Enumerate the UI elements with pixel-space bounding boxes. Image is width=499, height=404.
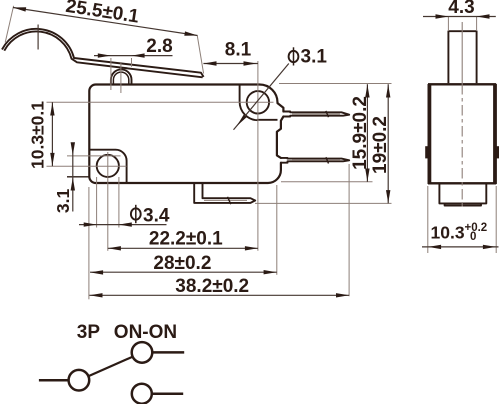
svg-text:4.3: 4.3 bbox=[448, 0, 474, 18]
plunger dome bbox=[111, 69, 132, 84]
dimension 10.3 left bbox=[51, 102, 53, 166]
ext hole right edge bbox=[118, 177, 120, 228]
svg-text:ON-ON: ON-ON bbox=[114, 322, 177, 343]
ext body left edge bbox=[88, 187, 90, 299]
svg-text:22.2±0.1: 22.2±0.1 bbox=[149, 229, 223, 250]
upper throw contact bbox=[132, 342, 153, 363]
common lead wire bbox=[39, 379, 68, 382]
ext line plunger left bbox=[110, 58, 112, 90]
svg-text:0: 0 bbox=[470, 231, 476, 243]
phi3.1 label and leader bbox=[234, 64, 289, 130]
hole top-right phi3.1 bbox=[247, 91, 269, 113]
dimension 15.9 right bbox=[366, 84, 368, 182]
svg-text:10.3±0.1: 10.3±0.1 bbox=[28, 101, 48, 169]
lever arm outer line bbox=[2, 29, 204, 77]
terminal 1 (NC) bbox=[283, 112, 349, 117]
mounting pad bottom-left bbox=[89, 150, 126, 182]
svg-text:15.9±0.2: 15.9±0.2 bbox=[350, 96, 371, 170]
dimension 4.3 bbox=[423, 16, 496, 18]
svg-text:3.1: 3.1 bbox=[53, 189, 73, 214]
ext lever end (25.5 right) bbox=[197, 35, 203, 73]
ext body bottom right bbox=[281, 181, 373, 183]
hole center vertical top-right bbox=[257, 61, 259, 251]
dimension 8.1 bbox=[203, 63, 258, 65]
hole center line horizontal bottom bbox=[47, 165, 127, 167]
side ext lines 4.3 bbox=[447, 17, 449, 32]
svg-text:3P: 3P bbox=[77, 322, 101, 343]
svg-text:38.2±0.2: 38.2±0.2 bbox=[175, 276, 249, 297]
mounting pad top-right bbox=[240, 85, 278, 121]
moving contact arm bbox=[88, 357, 133, 377]
common terminal lug bbox=[194, 183, 255, 203]
dimension 25.5 bbox=[13, 8, 198, 36]
side view plunger bbox=[448, 31, 476, 83]
plunger center line bbox=[120, 62, 122, 93]
svg-text:28±0.2: 28±0.2 bbox=[153, 253, 211, 274]
switch body outline bbox=[89, 85, 283, 184]
svg-text:8.1: 8.1 bbox=[225, 40, 252, 61]
dimension 2.8 bbox=[94, 55, 173, 57]
dimension 22.2 bbox=[108, 247, 258, 249]
side center line dashed bbox=[461, 22, 463, 84]
side bottom step bbox=[439, 184, 486, 205]
ext lever tip (25.5 left) bbox=[5, 6, 13, 43]
hole center vertical bottom-left bbox=[107, 152, 109, 251]
ext line hole top tangent bbox=[67, 155, 121, 157]
lower throw wire bbox=[152, 392, 183, 395]
svg-text:3.4: 3.4 bbox=[143, 205, 170, 226]
svg-text:2.8: 2.8 bbox=[146, 36, 172, 57]
svg-text:10.3: 10.3 bbox=[431, 222, 465, 242]
dimension 28 bbox=[90, 271, 277, 273]
svg-text:19±0.2: 19±0.2 bbox=[370, 116, 391, 174]
ext body right edge bbox=[276, 185, 278, 275]
ext line hole bottom tangent bbox=[67, 176, 90, 178]
ext hole left edge bbox=[96, 177, 98, 228]
lower throw contact bbox=[132, 384, 152, 404]
terminal 2 (NO) bbox=[281, 158, 349, 163]
ext terminal tips bbox=[348, 164, 350, 296]
dimension 3.1 left bbox=[72, 144, 74, 212]
hole bottom-left phi3.4 bbox=[97, 155, 119, 177]
svg-text:3.1: 3.1 bbox=[301, 46, 328, 67]
dimension 38.2 bbox=[89, 294, 349, 296]
side ext lines 10.3 bbox=[427, 186, 429, 253]
dimension 10.3 +0.2/0 bbox=[422, 246, 499, 248]
side view body bbox=[429, 84, 495, 183]
ext line plunger right bbox=[131, 58, 133, 67]
dimension 19 right bbox=[387, 84, 389, 203]
common contact bbox=[69, 370, 90, 391]
side ears bbox=[425, 146, 428, 158]
hole center line horizontal top bbox=[47, 101, 274, 103]
phi3.4 label bbox=[79, 224, 167, 226]
ext body top right bbox=[279, 83, 392, 85]
lever tick mark bbox=[37, 25, 39, 50]
upper throw wire bbox=[152, 351, 184, 354]
lever arm inner line bbox=[4, 31, 202, 77]
ext lug bottom bbox=[255, 202, 392, 204]
